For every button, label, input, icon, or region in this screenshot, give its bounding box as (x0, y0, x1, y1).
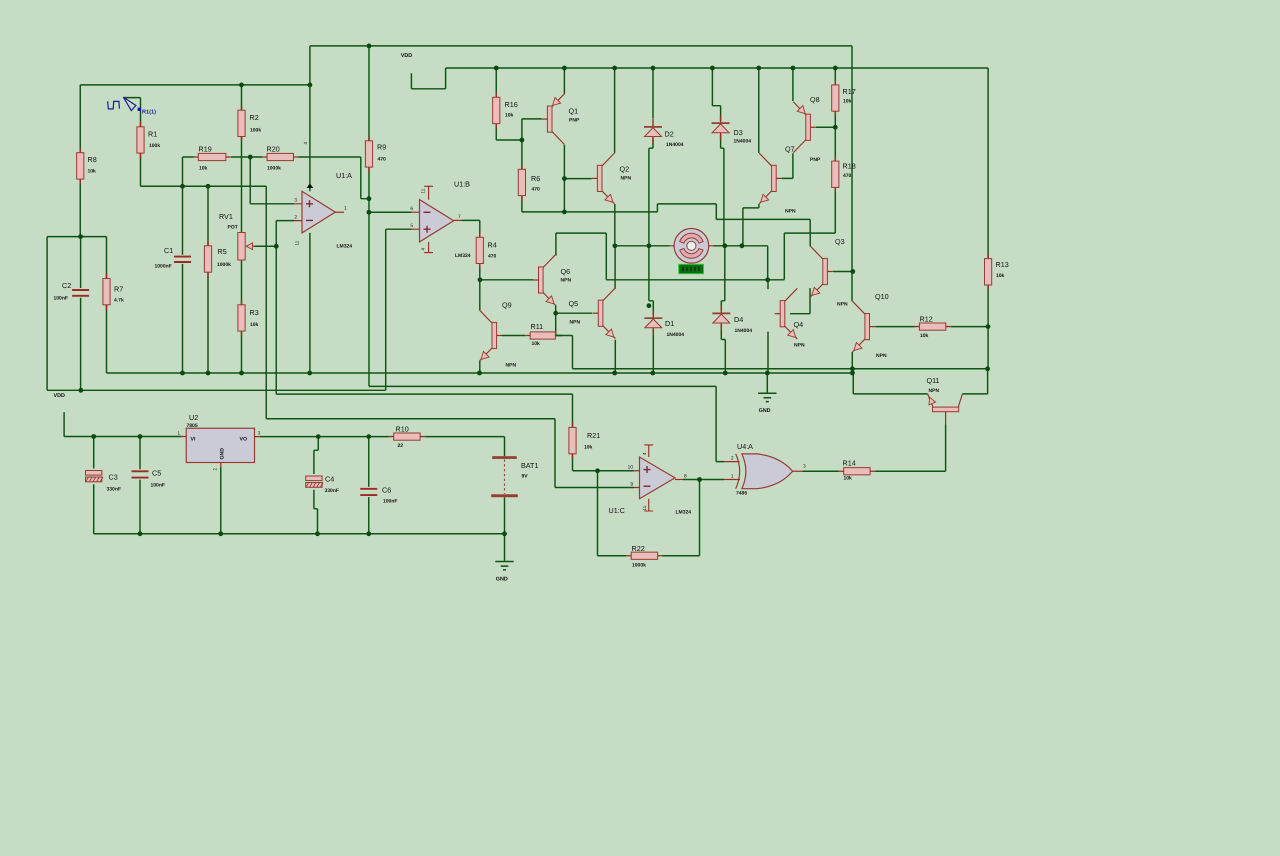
svg-text:VI: VI (191, 437, 196, 443)
svg-text:C1: C1 (164, 246, 173, 255)
svg-text:10k: 10k (843, 99, 852, 105)
svg-text:C5: C5 (152, 469, 161, 478)
svg-text:GND: GND (759, 408, 771, 414)
svg-text:11: 11 (421, 188, 426, 193)
svg-text:NPN: NPN (876, 353, 887, 359)
svg-text:470: 470 (488, 254, 497, 260)
svg-text:Q4: Q4 (794, 320, 804, 329)
svg-text:U4:A: U4:A (737, 442, 753, 451)
svg-text:330nF: 330nF (325, 488, 339, 494)
svg-text:R14: R14 (843, 459, 856, 468)
svg-text:1N4004: 1N4004 (667, 332, 685, 338)
svg-text:R13: R13 (996, 260, 1009, 269)
svg-text:NPN: NPN (837, 302, 848, 308)
svg-text:4: 4 (642, 452, 647, 455)
svg-text:2: 2 (294, 214, 297, 220)
svg-text:D2: D2 (665, 130, 674, 139)
svg-text:9: 9 (630, 482, 633, 488)
svg-text:10k: 10k (920, 333, 929, 339)
svg-text:Q11: Q11 (927, 376, 940, 385)
svg-text:8: 8 (684, 474, 687, 480)
svg-text:470: 470 (843, 173, 852, 179)
svg-text:4: 4 (421, 248, 426, 251)
svg-text:R20: R20 (267, 145, 280, 154)
svg-text:R21: R21 (587, 431, 600, 440)
svg-text:1000nF: 1000nF (155, 264, 172, 270)
svg-text:3: 3 (294, 198, 297, 204)
svg-text:4: 4 (303, 142, 308, 145)
svg-text:R18: R18 (843, 162, 856, 171)
svg-text:VO: VO (240, 437, 248, 443)
svg-text:1N4004: 1N4004 (666, 142, 684, 148)
svg-text:R8: R8 (88, 155, 97, 164)
svg-text:Q1: Q1 (569, 107, 579, 116)
svg-text:1000k: 1000k (267, 166, 281, 172)
svg-text:1000k: 1000k (632, 563, 646, 569)
svg-text:VDD: VDD (54, 393, 65, 399)
svg-text:Q3: Q3 (835, 237, 845, 246)
svg-text:C2: C2 (62, 281, 71, 290)
svg-text:100nF: 100nF (383, 499, 397, 505)
svg-text:Q10: Q10 (875, 292, 889, 301)
svg-text:10: 10 (628, 465, 634, 471)
svg-text:R9: R9 (377, 143, 386, 152)
svg-text:2: 2 (213, 468, 218, 471)
svg-text:LM324: LM324 (337, 244, 353, 250)
svg-text:100nF: 100nF (54, 296, 68, 302)
svg-text:11: 11 (295, 240, 300, 245)
svg-text:3: 3 (258, 431, 261, 436)
svg-text:R6: R6 (531, 174, 540, 183)
svg-text:R19: R19 (199, 145, 212, 154)
svg-text:C4: C4 (325, 475, 334, 484)
svg-text:1000k: 1000k (217, 262, 231, 268)
svg-text:1: 1 (344, 206, 347, 212)
svg-text:LM324: LM324 (455, 253, 471, 259)
svg-text:RV1: RV1 (219, 212, 233, 221)
svg-text:10k: 10k (532, 341, 541, 347)
svg-text:100k: 100k (250, 128, 261, 134)
svg-text:470: 470 (532, 187, 541, 193)
svg-text:VDD: VDD (401, 53, 412, 59)
svg-text:1: 1 (731, 474, 734, 480)
svg-text:NPN: NPN (561, 278, 572, 284)
svg-text:R16: R16 (505, 100, 518, 109)
svg-text:10k: 10k (996, 273, 1005, 279)
svg-text:D4: D4 (734, 315, 743, 324)
svg-text:470: 470 (378, 157, 387, 163)
svg-text:R1(1): R1(1) (142, 109, 156, 116)
svg-text:LM324: LM324 (676, 510, 692, 516)
svg-text:10k: 10k (844, 476, 853, 482)
svg-text:Q5: Q5 (569, 299, 579, 308)
svg-text:NPN: NPN (506, 363, 517, 369)
svg-text:330nF: 330nF (107, 487, 121, 493)
svg-text:Q2: Q2 (620, 165, 630, 174)
svg-text:Q6: Q6 (561, 267, 571, 276)
svg-text:R17: R17 (843, 87, 856, 96)
svg-text:POT: POT (228, 225, 238, 231)
svg-text:1N4004: 1N4004 (735, 328, 753, 334)
svg-text:NPN: NPN (785, 209, 796, 215)
svg-text:U1:B: U1:B (454, 180, 470, 189)
svg-text:R12: R12 (920, 315, 933, 324)
svg-text:U2: U2 (189, 413, 198, 422)
svg-text:D1: D1 (665, 319, 674, 328)
svg-text:R11: R11 (531, 322, 544, 331)
svg-text:10k: 10k (250, 322, 259, 328)
svg-text:Q9: Q9 (502, 301, 512, 310)
svg-text:6: 6 (410, 206, 413, 212)
svg-text:7486: 7486 (736, 491, 747, 497)
svg-text:R22: R22 (632, 544, 645, 553)
svg-text:10k: 10k (505, 113, 514, 119)
svg-text:R3: R3 (250, 308, 259, 317)
svg-text:4.7k: 4.7k (114, 298, 124, 304)
svg-text:1: 1 (177, 431, 180, 436)
svg-text:BAT1: BAT1 (521, 461, 538, 470)
svg-text:1N4004: 1N4004 (734, 139, 752, 145)
svg-text:2: 2 (731, 456, 734, 462)
svg-text:5: 5 (410, 223, 413, 229)
svg-text:R7: R7 (114, 285, 123, 294)
svg-text:PNP: PNP (810, 157, 821, 163)
svg-text:9V: 9V (522, 474, 529, 480)
svg-text:U1:A: U1:A (336, 171, 352, 180)
svg-text:NPN: NPN (794, 343, 805, 349)
svg-text:11: 11 (642, 505, 647, 510)
svg-text:Q7: Q7 (785, 145, 795, 154)
svg-text:D3: D3 (734, 128, 743, 137)
svg-text:10k: 10k (584, 445, 593, 451)
svg-text:10k: 10k (88, 169, 97, 175)
svg-text:3: 3 (803, 464, 806, 470)
svg-text:R10: R10 (396, 425, 409, 434)
svg-text:Q8: Q8 (810, 95, 820, 104)
svg-text:C6: C6 (382, 486, 391, 495)
svg-text:GND: GND (220, 448, 226, 460)
svg-text:R5: R5 (218, 247, 227, 256)
svg-text:10k: 10k (199, 166, 208, 172)
svg-text:7805: 7805 (187, 423, 198, 429)
svg-text:PNP: PNP (569, 118, 580, 124)
svg-text:100nF: 100nF (151, 483, 165, 489)
svg-text:U1:C: U1:C (609, 506, 625, 515)
svg-text:R1: R1 (148, 130, 157, 139)
svg-text:7: 7 (458, 214, 461, 220)
svg-text:R2: R2 (250, 113, 259, 122)
svg-text:22: 22 (398, 443, 404, 449)
svg-text:NPN: NPN (570, 320, 581, 326)
svg-text:NPN: NPN (929, 388, 940, 394)
svg-text:100k: 100k (149, 143, 160, 149)
svg-text:GND: GND (496, 577, 508, 583)
svg-text:R4: R4 (488, 241, 497, 250)
svg-text:C3: C3 (109, 473, 118, 482)
svg-text:NPN: NPN (621, 176, 632, 182)
